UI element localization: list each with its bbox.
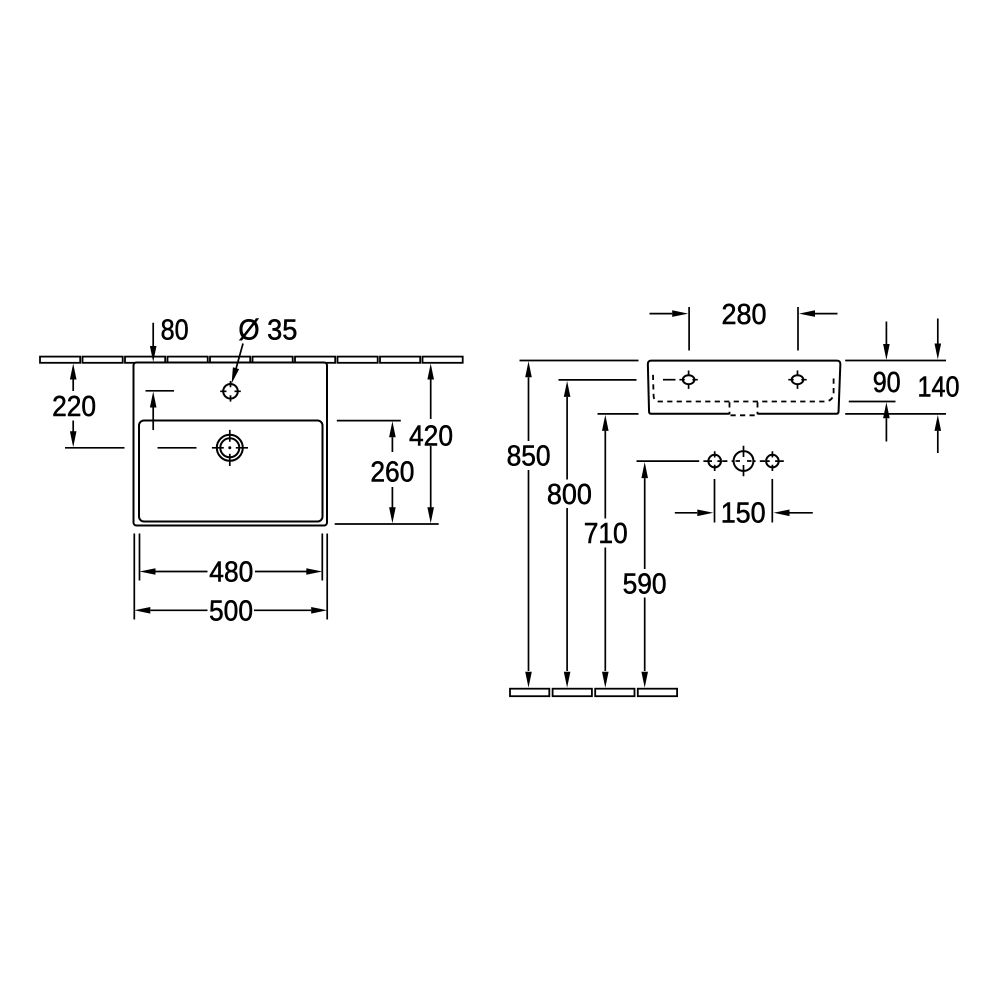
svg-text:710: 710 (584, 518, 628, 550)
svg-text:140: 140 (918, 372, 960, 404)
svg-text:150: 150 (721, 498, 766, 530)
svg-text:850: 850 (507, 441, 551, 473)
svg-text:280: 280 (722, 299, 767, 331)
svg-text:80: 80 (161, 315, 189, 347)
svg-text:220: 220 (52, 391, 96, 423)
svg-text:480: 480 (209, 556, 253, 588)
svg-text:90: 90 (873, 367, 901, 399)
svg-text:590: 590 (623, 569, 667, 601)
svg-text:420: 420 (409, 421, 453, 453)
svg-text:800: 800 (547, 479, 592, 511)
svg-text:Ø 35: Ø 35 (238, 315, 297, 347)
svg-text:260: 260 (370, 457, 414, 489)
svg-text:500: 500 (209, 595, 253, 627)
